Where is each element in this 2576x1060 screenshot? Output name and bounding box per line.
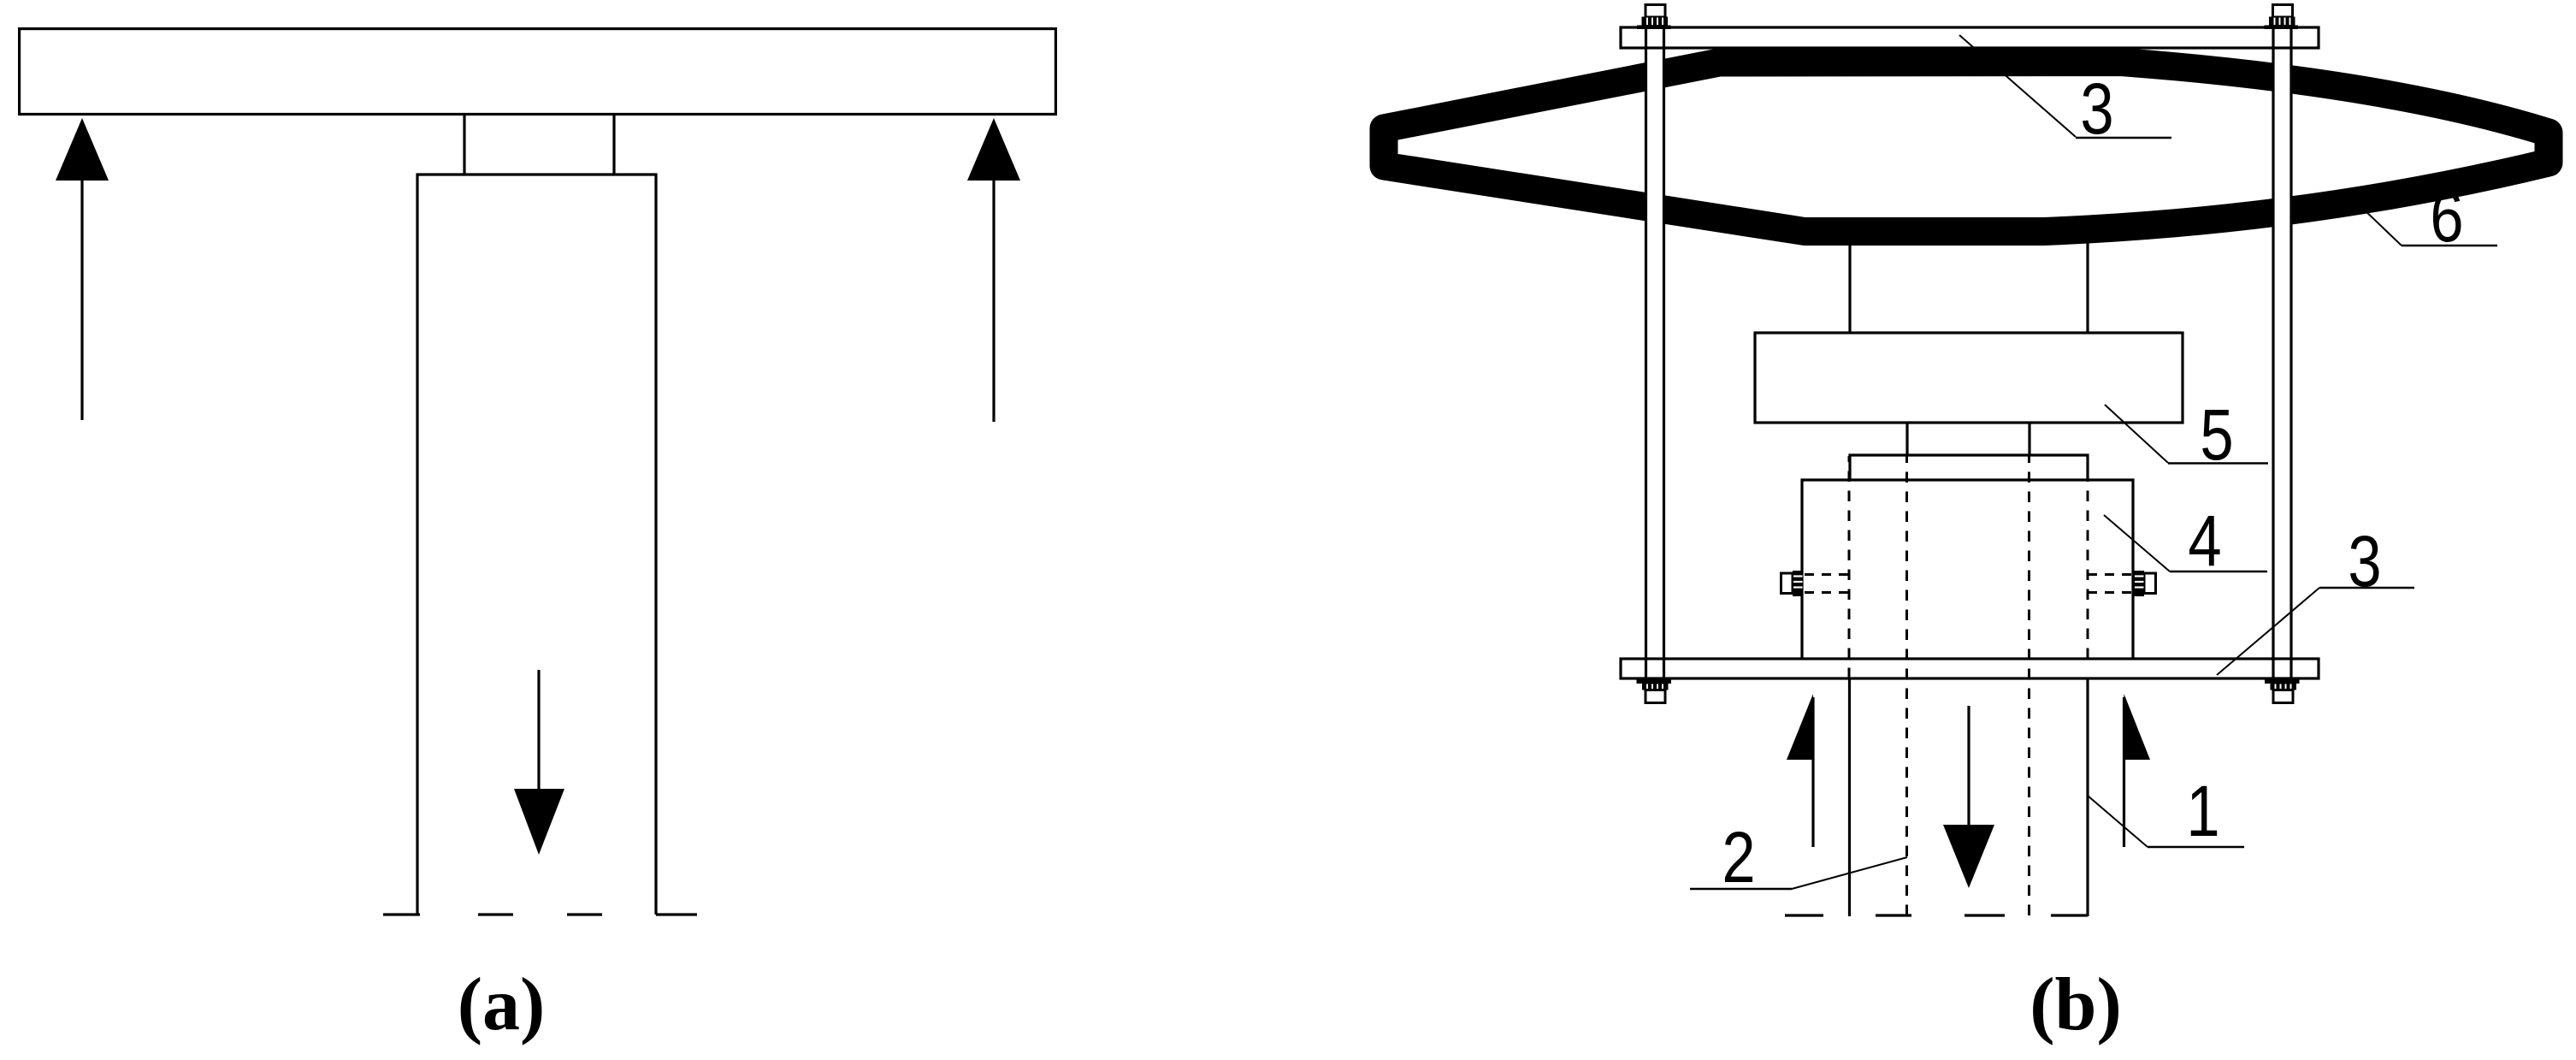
svg-text:4: 4: [2188, 501, 2221, 581]
right tie rod (bolt) white over band: [2273, 14, 2291, 691]
label 4 (block 4): [2104, 501, 2267, 581]
left side bolt on block 4: [1781, 571, 1850, 596]
svg-text:5: 5: [2200, 395, 2233, 475]
leader line to loading column: [2088, 796, 2148, 847]
load arrow (down) in column: [514, 670, 564, 855]
block 5 (load cell): [1755, 333, 2183, 423]
column (T stem): [417, 175, 656, 915]
leader line to top plate: [1959, 35, 2076, 137]
label 5 (block 5): [2105, 395, 2268, 475]
base dashed ground line (b): [1785, 914, 2088, 916]
left reaction arrow (up): [56, 118, 109, 420]
leader line to band: [2362, 208, 2402, 246]
hidden dashed lines (outer pair): [1849, 456, 2088, 678]
wire neck left: [463, 115, 465, 175]
right bolt top head: [2265, 5, 2299, 30]
loading column 1 below plate: [1848, 678, 1851, 916]
beam (top slab of T-shape): [20, 29, 1056, 115]
central down arrow (b): [1943, 706, 1994, 888]
left up arrow (b): [1787, 694, 1813, 847]
svg-text:3: 3: [2348, 522, 2381, 601]
svg-text:3: 3: [2080, 69, 2113, 149]
wire neck right: [612, 115, 615, 175]
hidden dashed lines (inner pair, rod 2): [1907, 456, 2029, 915]
svg-text:6: 6: [2430, 177, 2463, 257]
svg-text:(b): (b): [2029, 963, 2122, 1046]
belt/band 6 (thick black hexagonal loop): [1384, 62, 2549, 232]
connector rod block5-to-plate4: [1905, 423, 1908, 455]
block 4 (jack body): [1802, 480, 2133, 659]
base dashed ground line (a): [383, 913, 697, 915]
bottom plate 3: [1621, 659, 2319, 678]
connector rod band-to-block5: [1848, 238, 1851, 333]
right up arrow (b): [2124, 694, 2151, 847]
left bolt top head: [1637, 5, 1671, 30]
top plate 3: [1621, 27, 2319, 48]
right side bolt on block 4: [2088, 571, 2156, 596]
leader line to block 5: [2105, 405, 2168, 463]
label 2 (inner rod): [1690, 818, 1907, 897]
right reaction arrow (up): [967, 118, 1020, 422]
left bolt bottom nut: [1637, 680, 1672, 703]
leader line to block 4: [2104, 515, 2170, 571]
right bolt bottom nut: [2265, 680, 2300, 703]
label 1 (loading column): [2088, 772, 2244, 851]
thin cap plate on block 4: [1850, 455, 2088, 480]
label 6 (band): [2362, 177, 2497, 257]
left tie rod (bolt) white over band: [1646, 14, 1664, 691]
svg-text:2: 2: [1722, 818, 1755, 897]
svg-text:(a): (a): [458, 963, 546, 1046]
svg-text:1: 1: [2186, 772, 2219, 851]
label 3 (bottom plate): [2217, 522, 2414, 675]
label 3 (top plate): [1959, 35, 2171, 149]
leader line to bottom plate: [2217, 588, 2319, 675]
leader line to inner rod: [1792, 857, 1907, 889]
